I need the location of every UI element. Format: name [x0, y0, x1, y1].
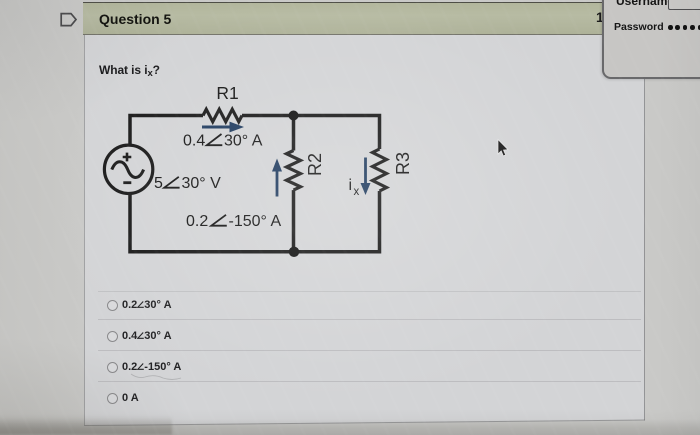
svg-text:i: i — [349, 177, 353, 194]
faint squiggle artifact under option 3 — [130, 372, 182, 380]
label ix — [349, 177, 360, 198]
wire: middle branch top (node A to R2 top lead) — [292, 116, 296, 151]
points value 1 (partially covered by popup) — [596, 9, 604, 25]
question header bar — [83, 2, 643, 35]
popup username input box (partial) — [668, 0, 700, 10]
resistor R1 — [203, 109, 242, 121]
resistor R2 — [287, 151, 301, 191]
resistor R3 — [373, 149, 387, 191]
sine wave inside source — [112, 162, 144, 178]
current arrow through R1 (0.4 A, pointing right) — [202, 122, 244, 133]
quiz panel body — [84, 2, 645, 425]
header title: Question 5 — [99, 11, 171, 27]
mouse cursor arrow — [498, 140, 508, 156]
svg-text:30° V: 30° V — [182, 175, 222, 192]
radio option 3: 0.2 -150 A — [106, 361, 108, 375]
wire: bottom-left segment (node B to source bottom) — [130, 193, 294, 252]
radio option 1: 0.2 30 A — [106, 299, 108, 313]
radio option 2: 0.4 30 A — [106, 330, 108, 344]
option separator line — [98, 350, 641, 351]
node A (top junction dot) — [289, 111, 299, 121]
svg-text:0.2: 0.2 — [186, 213, 208, 230]
svg-text:5: 5 — [154, 175, 163, 192]
bottom-left dark band (photo edge) — [0, 414, 172, 435]
wire: top-left segment (source top to R1 left lead) — [130, 116, 203, 146]
value label 5&#8736;30&#176; V — [154, 175, 221, 192]
option separator line — [98, 319, 641, 320]
prompt: What is ix? — [99, 63, 160, 79]
wire: top segment from R1 to node A — [242, 114, 294, 118]
radio option 4: 0 A — [106, 392, 108, 406]
node B (bottom junction dot) — [289, 247, 299, 257]
value label 0.4&#8736;30&#176; A — [183, 133, 263, 150]
wire: middle branch bottom (R2 bottom lead to node B) — [292, 190, 296, 252]
svg-text:R2: R2 — [305, 153, 325, 176]
source polarity minus sign — [123, 181, 131, 184]
wire: right-bottom segment (R3 bottom lead down and along bottom to node B) — [294, 191, 380, 252]
svg-text:30° A: 30° A — [224, 133, 263, 150]
bookmark flag icon — [59, 12, 79, 29]
option separator line (top) — [98, 291, 641, 292]
svg-text:0.4: 0.4 — [183, 133, 205, 150]
current arrow ix beside R3 (pointing down) — [361, 158, 371, 196]
current arrow beside R2 (pointing up) — [272, 159, 282, 197]
svg-text:R1: R1 — [216, 83, 238, 103]
value label 0.2&#8736;-150&#176; A — [186, 213, 281, 230]
popup label Password — [614, 21, 664, 33]
ac voltage source V1 circle — [104, 145, 152, 193]
popup password dots — [668, 25, 700, 31]
popup label Username (cut off at top) — [616, 0, 674, 6]
svg-text:R3: R3 — [393, 152, 413, 175]
panel bottom border (slightly slanted, photo perspective) — [84, 420, 645, 427]
svg-text:-150° A: -150° A — [229, 213, 282, 230]
source polarity plus sign — [123, 153, 132, 162]
wire: top-right segment (node A to R3 top lead) — [294, 116, 380, 150]
svg-text:x: x — [354, 186, 360, 198]
option separator line — [98, 381, 641, 382]
darker strip along photo bottom — [0, 419, 700, 435]
